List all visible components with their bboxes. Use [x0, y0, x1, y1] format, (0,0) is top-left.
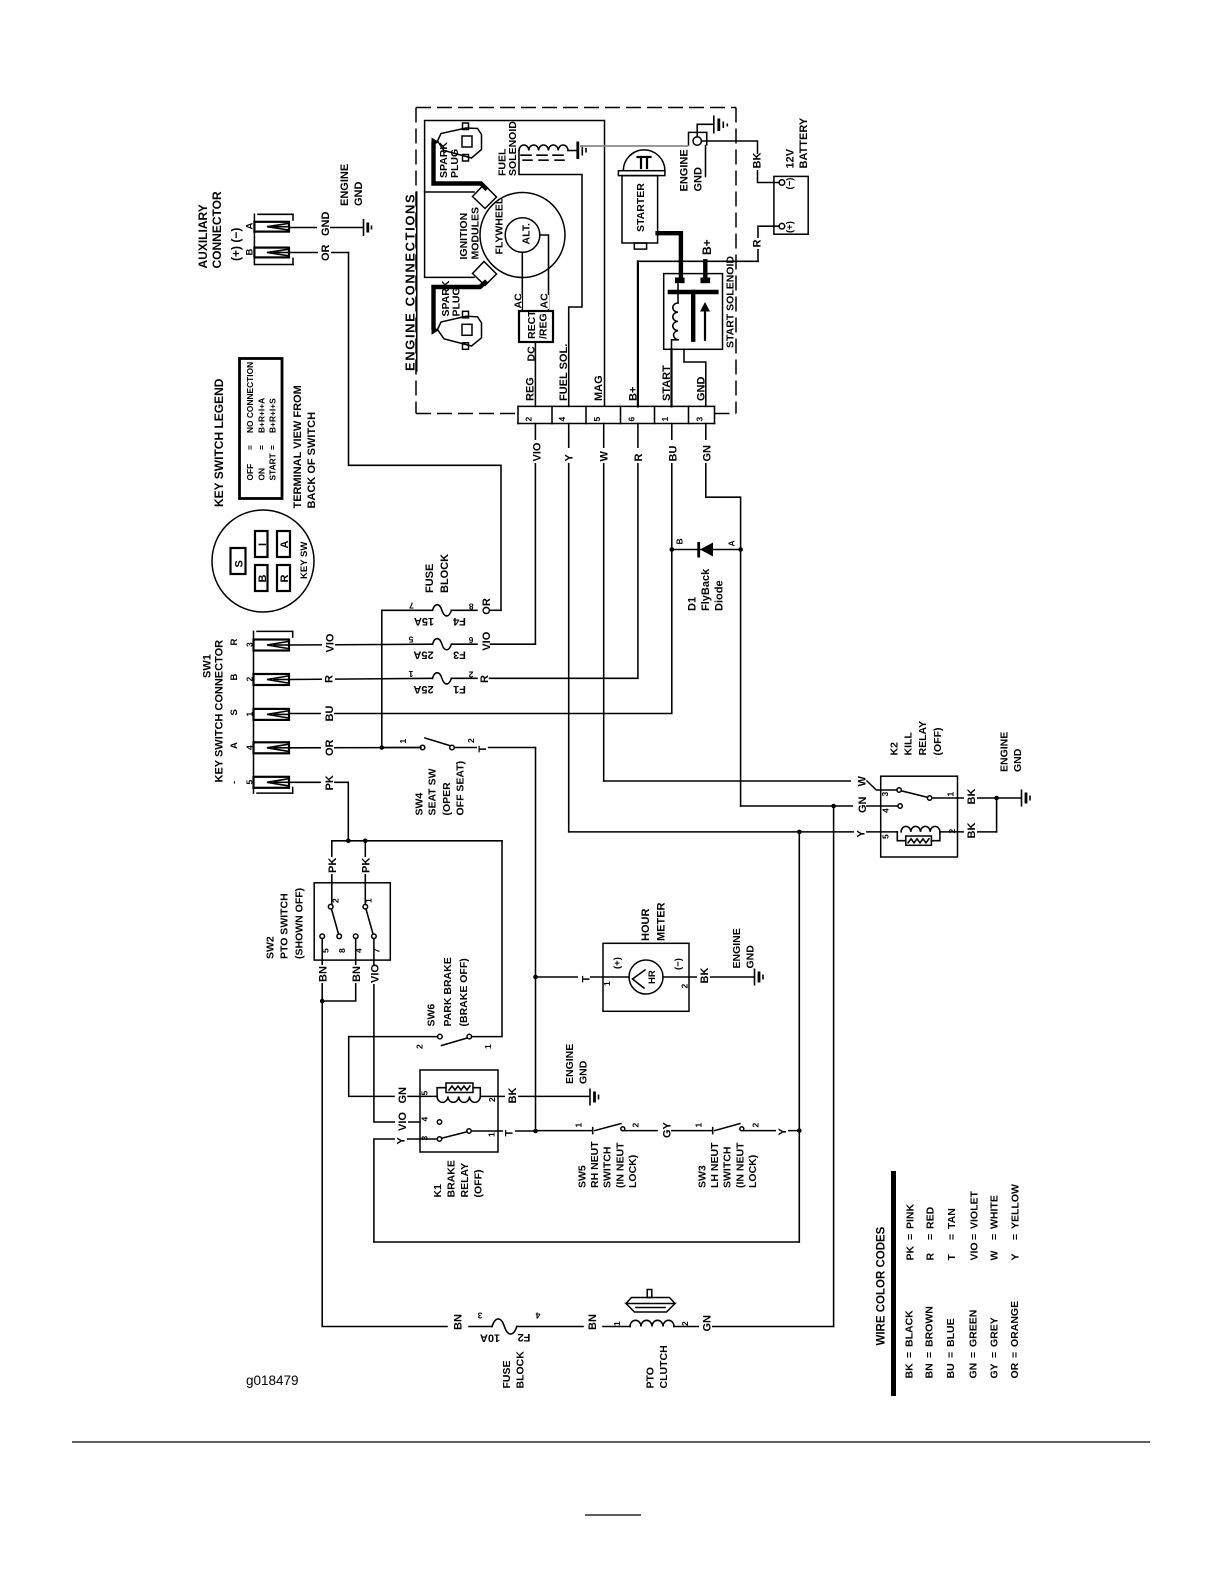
svg-text:5: 5 — [592, 417, 602, 422]
svg-text:1: 1 — [398, 739, 408, 744]
wire BN SW2 pin4 down and left — [322, 939, 363, 1002]
wire R SW1 pin2 to fuse F1 — [289, 671, 433, 684]
D1 FlyBack Diode label — [687, 568, 726, 611]
SW2 pin1 contact — [363, 904, 368, 909]
svg-text:1: 1 — [694, 1123, 704, 1128]
svg-text:LOCK): LOCK) — [627, 1155, 639, 1188]
K2 box — [881, 776, 958, 857]
K1 pin3 contact — [437, 1137, 441, 1141]
wire GY SW5 to SW3 — [625, 1121, 713, 1139]
svg-text:1: 1 — [487, 1132, 497, 1137]
svg-text:Y: Y — [396, 1137, 408, 1145]
connector AUX pin A — [245, 222, 290, 232]
svg-text:4: 4 — [557, 417, 567, 422]
FUSE BLOCK label (F2) — [501, 1351, 527, 1389]
svg-text:(+) (−): (+) (−) — [229, 228, 243, 261]
svg-text:S: S — [234, 560, 246, 567]
solenoid coil — [672, 284, 679, 349]
wire BK K2 pin1 to gnd junction — [932, 789, 997, 806]
hour meter clock icon — [629, 960, 663, 994]
svg-text:I: I — [257, 543, 269, 546]
svg-text:VIO: VIO — [370, 964, 382, 983]
svg-text:GN: GN — [702, 445, 714, 462]
svg-text:START: START — [268, 452, 278, 480]
wire R battery pos to B+ line — [752, 226, 780, 261]
K1 coil (below line) — [437, 1096, 480, 1102]
svg-text:1: 1 — [364, 898, 374, 903]
svg-text:BACK OF SWITCH: BACK OF SWITCH — [306, 412, 318, 509]
svg-text:GN: GN — [968, 1363, 980, 1379]
svg-text:4: 4 — [881, 808, 891, 813]
svg-text:3: 3 — [420, 1136, 430, 1141]
svg-text:10A: 10A — [480, 1331, 500, 1343]
SW1 pin 4 (A) — [229, 742, 289, 753]
ground symbol (K1) — [590, 1089, 599, 1106]
svg-text:AC: AC — [539, 293, 551, 309]
ground symbol (engine gnd top) — [714, 116, 728, 134]
AC labels — [513, 293, 551, 309]
BN label left of F2 — [450, 1313, 465, 1331]
SW1 bracket — [254, 631, 293, 793]
wire row to SW5 — [536, 1130, 593, 1132]
ENGINE GND label (starter) — [679, 149, 705, 191]
svg-text:SW3: SW3 — [697, 1165, 709, 1188]
svg-text:R: R — [324, 675, 336, 683]
wire VIO SW1 pin3 to fuse F3 — [289, 633, 433, 655]
svg-text:2: 2 — [245, 677, 255, 682]
junction T net at hour meter — [533, 975, 538, 980]
junction T at K1/SW5 row — [533, 1129, 538, 1134]
svg-text:PTO SWITCH: PTO SWITCH — [279, 893, 291, 959]
svg-text:(BRAKE OFF): (BRAKE OFF) — [458, 958, 470, 1026]
legend GN = GREEN — [968, 1310, 980, 1379]
wire T into hour meter pin1 — [536, 971, 630, 983]
ENGINE GND label (hour meter) — [731, 928, 757, 968]
svg-text:=: = — [257, 445, 267, 450]
svg-text:25A: 25A — [413, 683, 433, 695]
svg-text:OR: OR — [1009, 1362, 1021, 1378]
wire GN SW6 pin2 down to K1 pin5 — [349, 1037, 394, 1097]
svg-text:Y: Y — [1010, 1253, 1022, 1260]
svg-text:BLUE: BLUE — [945, 1318, 957, 1347]
wire BK K2 pin2 to gnd vertical — [940, 798, 997, 840]
svg-text:BRAKE: BRAKE — [446, 1160, 458, 1197]
svg-text:BROWN: BROWN — [924, 1306, 936, 1347]
wire ALT AC right down to RECT/REG — [540, 235, 549, 311]
svg-text:GN: GN — [397, 1087, 409, 1104]
legend BU = BLUE — [945, 1318, 957, 1378]
svg-text:4: 4 — [535, 1311, 540, 1321]
wire VIO SW2 pin7 down to K1 pin4 — [367, 939, 420, 1123]
svg-text:D1: D1 — [687, 597, 699, 611]
svg-text:F4: F4 — [452, 615, 466, 627]
svg-text:5: 5 — [245, 780, 255, 785]
wire SW4 row — [382, 747, 421, 749]
thick cable starter to solenoid terminal — [658, 233, 681, 276]
svg-text:B: B — [675, 538, 685, 544]
svg-text:OFF: OFF — [245, 464, 255, 481]
SW5 label — [577, 1141, 640, 1188]
wire aux A to ground, GND label — [289, 212, 362, 238]
K2 resistor (parallel) — [897, 832, 940, 845]
svg-text:ENGINE: ENGINE — [731, 928, 743, 968]
fuse F2 10A — [469, 1311, 583, 1344]
junction GN at K2 — [831, 804, 836, 809]
wire PK bus horizontal — [332, 840, 502, 842]
svg-text:BK: BK — [507, 1088, 519, 1104]
svg-text:W: W — [599, 451, 611, 462]
svg-text:=: = — [1010, 1234, 1022, 1240]
svg-text:PLUG: PLUG — [449, 149, 461, 178]
terminal A — [277, 531, 291, 557]
svg-text:BK: BK — [904, 1363, 916, 1379]
svg-text:1: 1 — [612, 1321, 622, 1326]
svg-text:PTO: PTO — [645, 1367, 657, 1388]
SW1 pin 2 (B) — [229, 674, 289, 686]
svg-text:OR: OR — [481, 598, 493, 615]
svg-text:HOUR: HOUR — [640, 909, 652, 941]
svg-text:T: T — [581, 976, 593, 983]
thick HT lead spark plug 2 to ignition module 2 — [434, 283, 486, 328]
legend VIO = VIOLET — [969, 1190, 981, 1260]
svg-text:SW4: SW4 — [414, 793, 426, 816]
svg-text:OFF SEAT): OFF SEAT) — [455, 761, 467, 816]
SW6 contacts and blade — [438, 1034, 472, 1045]
svg-text:K2: K2 — [889, 742, 901, 756]
svg-text:T: T — [946, 1254, 958, 1261]
svg-text:=: = — [905, 1234, 917, 1240]
fuel solenoid coil — [519, 145, 576, 160]
svg-text:B+: B+ — [700, 239, 714, 255]
PTO clutch coil — [630, 1320, 674, 1326]
SW3 label — [697, 1142, 760, 1188]
svg-text:=: = — [945, 1352, 957, 1358]
svg-text:BU: BU — [945, 1363, 957, 1378]
svg-text:(OFF): (OFF) — [932, 728, 944, 756]
wire into clutch — [603, 1326, 630, 1328]
svg-text:ENGINE CONNECTIONS: ENGINE CONNECTIONS — [403, 193, 418, 371]
svg-text:=: = — [969, 1234, 981, 1240]
svg-text:BK: BK — [699, 968, 711, 984]
wire BN SW2 pin5 down — [316, 939, 330, 1002]
svg-text:RECT: RECT — [526, 310, 538, 339]
wire T K1 pin1 to T net — [471, 1125, 535, 1137]
svg-text:ENGINE: ENGINE — [339, 164, 351, 206]
fuse F1 25A — [408, 669, 477, 695]
connector J-AUX label text — [196, 191, 243, 268]
wire PK drop to SW2 pin2 — [326, 841, 340, 905]
legend R = RED — [925, 1206, 937, 1260]
svg-text:GN: GN — [702, 1315, 714, 1332]
SW2 blade 1-7 — [366, 909, 373, 934]
svg-text:TAN: TAN — [946, 1208, 958, 1229]
svg-text:2: 2 — [468, 669, 473, 679]
svg-text:2: 2 — [466, 738, 476, 743]
svg-text:B+R+I+S: B+R+I+S — [268, 398, 278, 433]
legend OR = ORANGE — [1009, 1301, 1021, 1379]
svg-text:ALT.: ALT. — [521, 223, 533, 244]
wire VIO strip pin2 down to fuse F3 — [529, 424, 544, 644]
svg-text:GND: GND — [353, 182, 365, 207]
svg-text:BN: BN — [351, 966, 363, 982]
wire R strip pin6 down then left to fuse F1 — [490, 424, 646, 679]
svg-text:=: = — [1009, 1352, 1021, 1358]
svg-text:1: 1 — [946, 792, 956, 797]
K2 common contact — [927, 796, 931, 800]
svg-text:BN: BN — [924, 1363, 936, 1378]
junction Y at SW3 — [797, 1128, 802, 1133]
svg-text:B: B — [257, 575, 269, 583]
svg-text:GN: GN — [857, 796, 869, 813]
K1 box — [420, 1070, 498, 1152]
svg-text:MAG: MAG — [593, 375, 605, 401]
svg-text:5: 5 — [881, 834, 891, 839]
ENGINE CONNECTIONS title (underlined) — [403, 192, 418, 371]
svg-text:B+: B+ — [628, 387, 640, 401]
svg-text:TERMINAL VIEW FROM: TERMINAL VIEW FROM — [292, 385, 304, 508]
svg-text:B: B — [245, 249, 256, 256]
K2 pin4 contact — [898, 804, 902, 808]
wire BU strip pin1 down then left to SW1 pin S — [289, 424, 680, 714]
svg-text:-: - — [229, 781, 240, 784]
svg-text:A: A — [229, 742, 240, 749]
wire B+ down to strip pin 6 — [637, 261, 639, 406]
svg-text:(SHOWN OFF): (SHOWN OFF) — [294, 888, 306, 959]
svg-text:4: 4 — [245, 745, 255, 750]
SW1 pin 5 (-) — [229, 777, 289, 788]
svg-text:CLUTCH: CLUTCH — [658, 1345, 670, 1388]
svg-text:AC: AC — [513, 293, 525, 309]
svg-text:SW2: SW2 — [265, 936, 277, 959]
svg-text:A: A — [279, 541, 291, 549]
svg-text:BU: BU — [668, 446, 680, 462]
legend T = TAN — [946, 1208, 958, 1260]
K1 resistor (parallel above) — [437, 1083, 480, 1096]
svg-text:SEAT SW: SEAT SW — [427, 768, 439, 815]
flywheel circle — [480, 193, 565, 278]
diode D1 symbol — [699, 542, 713, 558]
svg-text:SWITCH: SWITCH — [602, 1147, 614, 1188]
K1 blade 3-1 — [442, 1132, 467, 1138]
alternator circle ALT. — [505, 218, 540, 253]
legend W = WHITE — [989, 1195, 1001, 1260]
svg-text:VIOLET: VIOLET — [969, 1190, 981, 1229]
svg-text:=: = — [924, 1352, 936, 1358]
wire PK drop to SW2 pin1 — [359, 841, 373, 905]
wire GN strip pin3 down, jog right, down to K2 GN row — [699, 424, 741, 807]
svg-text:7: 7 — [409, 601, 414, 611]
PTO clutch plate symbol — [626, 1290, 675, 1313]
wire aux B OR net: right, down, right, down to fuse F4 pin8 — [289, 243, 501, 610]
svg-text:Y: Y — [564, 454, 576, 462]
wire Y into K2 pin5 — [569, 825, 898, 838]
svg-text:1: 1 — [483, 1044, 493, 1049]
svg-text:2: 2 — [524, 417, 534, 422]
svg-text:PK: PK — [327, 858, 339, 873]
svg-text:2: 2 — [631, 1123, 641, 1128]
svg-text:2: 2 — [680, 984, 690, 989]
wire Y SW3 to Y net — [744, 1122, 799, 1136]
svg-text:B+R+I+A: B+R+I+A — [257, 398, 267, 433]
svg-text:SOLENOID: SOLENOID — [507, 121, 519, 176]
VIO label into K1 pin4 — [395, 1112, 409, 1132]
wire B+ horizontal — [638, 260, 758, 262]
svg-text:BK: BK — [966, 823, 978, 839]
svg-text:KEY SWITCH CONNECTOR: KEY SWITCH CONNECTOR — [214, 640, 226, 783]
svg-text:=: = — [989, 1352, 1001, 1358]
svg-text:FUSE: FUSE — [424, 564, 436, 593]
svg-text:PK: PK — [905, 1245, 917, 1260]
svg-text:LOCK): LOCK) — [747, 1155, 759, 1188]
wire Y strip pin4 down to K2 row — [562, 424, 576, 832]
legend bar — [891, 1171, 896, 1396]
wire OR F4 pin8 to OR net corner — [481, 598, 501, 615]
svg-text:ON: ON — [257, 468, 267, 481]
svg-text:R: R — [229, 639, 240, 646]
SW1 title — [202, 640, 226, 783]
K1 common contact — [467, 1129, 471, 1133]
fuse F4 15A — [382, 601, 477, 627]
svg-text:START: START — [661, 365, 673, 401]
FUEL SOLENOID label — [497, 121, 520, 176]
SW1 pin 1 (S) — [229, 709, 289, 720]
svg-text:BU: BU — [324, 706, 336, 722]
svg-text:K1: K1 — [432, 1184, 444, 1198]
svg-text:GND: GND — [745, 945, 757, 969]
fuse F3 25A — [408, 635, 477, 661]
ignition module 1 (top, tilted) — [473, 185, 497, 209]
svg-text:GY: GY — [662, 1121, 674, 1138]
SW4 contacts and blade — [420, 738, 454, 750]
svg-text:VIO: VIO — [325, 633, 337, 652]
svg-text:(−): (−) — [785, 178, 796, 190]
engine inner boundary / MAG bus — [425, 121, 605, 407]
svg-text:B: B — [229, 674, 240, 681]
svg-text:BLOCK: BLOCK — [439, 554, 451, 593]
svg-text:/REG: /REG — [538, 313, 550, 339]
wire fuel solenoid to strip pin 4 (FUEL SOL net) — [519, 151, 582, 407]
svg-text:2: 2 — [415, 1044, 425, 1049]
wire T SW4 pin2 to T vertical — [454, 742, 535, 753]
wire Y into K1 pin3 — [374, 1132, 437, 1242]
wire W to K2 pin3 — [604, 775, 897, 790]
legend BN = BROWN — [924, 1306, 936, 1378]
svg-text:1: 1 — [574, 1123, 584, 1128]
svg-text:KEY SWITCH LEGEND: KEY SWITCH LEGEND — [212, 378, 226, 507]
legend row START — [268, 398, 278, 481]
SW5 switch — [593, 1124, 625, 1134]
wire T net vertical down to hour meter junction and K1 — [535, 748, 537, 1132]
svg-text:3: 3 — [695, 417, 705, 422]
svg-text:RED: RED — [925, 1206, 937, 1229]
svg-text:PK: PK — [324, 775, 336, 790]
page number rule — [585, 1514, 641, 1516]
svg-text:15A: 15A — [414, 615, 434, 627]
svg-text:OR: OR — [320, 244, 332, 261]
terminal I — [255, 531, 269, 557]
svg-text:8: 8 — [469, 601, 474, 611]
svg-text:=: = — [925, 1234, 937, 1240]
SPARK PLUG label (bottom) — [440, 280, 463, 316]
BN label right of F2 — [584, 1313, 599, 1331]
wire SW6 pin1 up to PK bus — [472, 841, 502, 1037]
ENGINE GND label (K1) — [564, 1044, 590, 1084]
ground symbol (fuel solenoid) — [578, 142, 586, 160]
svg-text:3: 3 — [477, 1311, 482, 1321]
svg-text:2: 2 — [947, 829, 957, 834]
SPARK PLUG label (top) — [438, 142, 461, 178]
SW2 pin7 contact — [372, 934, 377, 939]
svg-text:R: R — [279, 575, 291, 583]
svg-text:R: R — [479, 675, 491, 683]
junction Y net — [797, 830, 802, 835]
svg-text:KEY SW: KEY SW — [299, 542, 310, 579]
svg-text:Y: Y — [777, 1128, 789, 1136]
wire module feed bottom (thin) — [425, 276, 474, 278]
svg-text:2: 2 — [680, 1321, 690, 1326]
wire module feed top (thin) — [425, 191, 474, 193]
svg-text:12V: 12V — [785, 148, 797, 168]
junction PK at x348 — [346, 839, 351, 844]
junction node B — [670, 547, 675, 552]
svg-text:=: = — [989, 1234, 1001, 1240]
svg-text:AUXILIARY: AUXILIARY — [196, 204, 210, 268]
junction BK gnd — [994, 796, 999, 801]
legend Y = YELLOW — [1010, 1184, 1022, 1261]
svg-text:NO CONNECTION: NO CONNECTION — [245, 362, 255, 433]
wire fuse bus vertical (F4 pin7 to OR row) — [381, 610, 383, 747]
svg-text:=: = — [946, 1234, 958, 1240]
wire VIO F3 pin6 up to strip pin2 — [481, 631, 535, 650]
svg-text:4: 4 — [420, 1117, 430, 1122]
svg-text:(+): (+) — [612, 957, 623, 969]
svg-text:LH NEUT: LH NEUT — [709, 1142, 721, 1188]
legend PK = PINK — [905, 1203, 917, 1260]
svg-text:2: 2 — [487, 1097, 497, 1102]
K1 label — [432, 1160, 485, 1197]
legend box — [240, 359, 283, 499]
SW2 pin5 contact — [320, 934, 325, 939]
ignition module 2 (bottom, tilted) — [473, 262, 497, 286]
svg-text:=: = — [968, 1352, 980, 1358]
svg-text:RELAY: RELAY — [917, 721, 929, 756]
svg-text:SW5: SW5 — [577, 1165, 589, 1188]
junction OR bus at fuse block — [380, 745, 385, 750]
wire START net solenoid coil to strip pin 1 (thick) — [670, 349, 672, 406]
wire BU SW1 pin1 (joins long BU run) — [321, 704, 336, 723]
svg-text:1: 1 — [602, 981, 612, 986]
svg-text:6: 6 — [468, 635, 473, 645]
svg-text:GY: GY — [989, 1363, 1001, 1378]
K2 blade 3-1 — [901, 791, 927, 798]
svg-text:ENGINE: ENGINE — [564, 1044, 576, 1084]
svg-text:=: = — [245, 445, 255, 450]
svg-text:ENGINE: ENGINE — [679, 149, 691, 191]
svg-text:STARTER: STARTER — [635, 183, 647, 232]
solenoid arrow — [700, 302, 710, 340]
wire W strip pin5 down to K2 W row — [597, 424, 611, 782]
svg-text:OR: OR — [324, 739, 336, 756]
svg-text:VIO: VIO — [969, 1242, 981, 1260]
svg-text:T: T — [504, 1130, 516, 1137]
hour meter box — [603, 943, 689, 1011]
RECT/REG box U-rect — [519, 310, 553, 342]
svg-text:A: A — [245, 223, 256, 230]
thick HT lead spark plug 1 to ignition module — [434, 144, 486, 188]
svg-text:START SOLENOID: START SOLENOID — [725, 256, 737, 348]
svg-text:BN: BN — [587, 1314, 599, 1330]
terminal B — [255, 565, 269, 591]
